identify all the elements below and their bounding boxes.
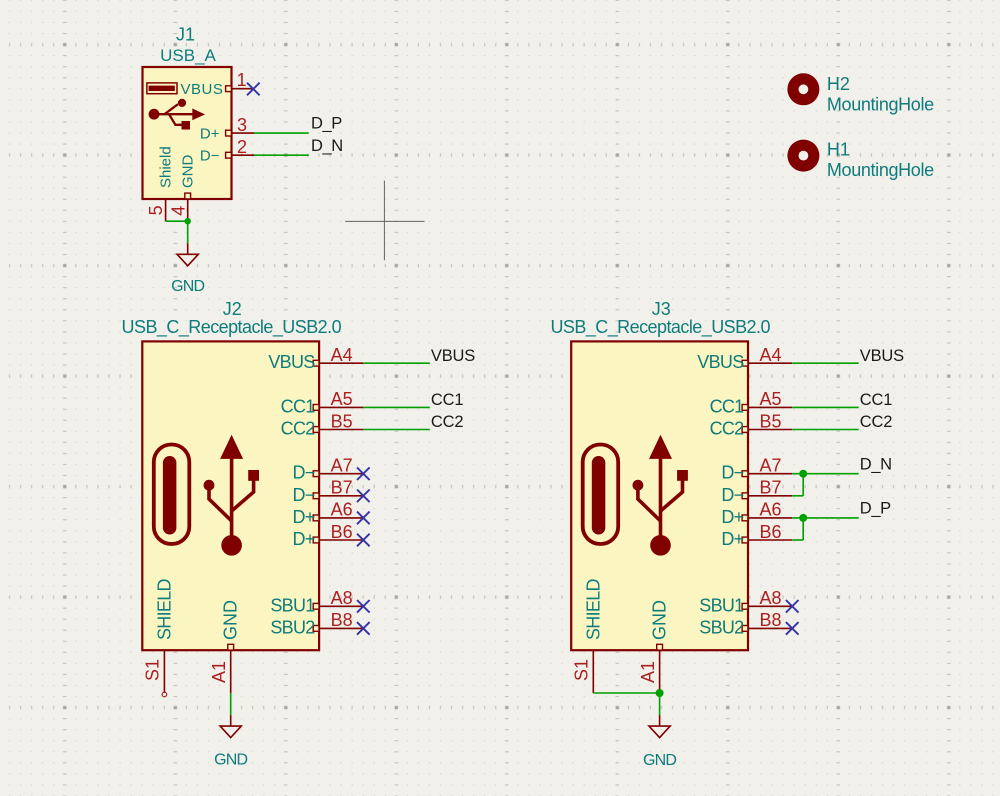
label D_N [311, 137, 343, 155]
pin A8 name [699, 595, 744, 615]
pin A5 number [331, 389, 353, 409]
pin A5 number [759, 389, 781, 409]
USB-A receptacle icon [147, 83, 177, 94]
pin B5 CC2 of J2 [313, 427, 363, 433]
pin A1 GND of J3 [657, 644, 663, 693]
pin A8 name [270, 595, 315, 615]
pin B5 number [331, 411, 353, 431]
svg-text:B8: B8 [759, 610, 781, 630]
pin name VBUS [180, 81, 223, 98]
pin 2 number [237, 137, 247, 157]
reference J1 [176, 25, 195, 45]
mounting hole H1 [787, 140, 819, 172]
svg-text:VBUS: VBUS [268, 352, 315, 372]
junction GND (J3) [656, 689, 664, 697]
wire B6 to junction [792, 518, 803, 540]
pin A7 number [331, 456, 353, 476]
svg-text:D+: D+ [292, 529, 314, 549]
svg-text:S1: S1 [142, 659, 162, 681]
pin A8 SBU1 of J2 [313, 603, 363, 609]
svg-text:D−: D− [292, 485, 314, 505]
wire pin5 to junction [166, 220, 188, 222]
wire VBUS [363, 362, 430, 364]
unconnected pin end S1 [162, 692, 167, 697]
wire D_P [792, 517, 859, 519]
value USB_C_Receptacle_USB2.0 (J2) [122, 317, 342, 338]
pin B6 number [331, 522, 353, 542]
svg-text:D_N: D_N [860, 455, 892, 473]
svg-text:1: 1 [237, 70, 247, 90]
wire CC1 [363, 406, 430, 408]
pin B6 name [292, 529, 314, 549]
pin 4 GND of J1 [185, 193, 191, 221]
svg-text:A8: A8 [331, 588, 353, 608]
USB-C oval icon (J3) [583, 445, 619, 545]
junction D_N [799, 470, 807, 478]
svg-text:CC2: CC2 [281, 419, 316, 439]
pin B8 name [699, 617, 744, 637]
svg-text:A1: A1 [209, 661, 229, 683]
pin A7 D- of J3 [742, 471, 792, 477]
pin B5 CC2 of J3 [742, 427, 792, 433]
USB trident icon (J2) [204, 435, 259, 556]
pin 2 D- of J1 [226, 152, 254, 158]
pin name GND (vertical) [650, 600, 670, 640]
reference H1 [827, 140, 850, 160]
pin 4 number [168, 206, 188, 216]
svg-text:B7: B7 [331, 478, 353, 498]
svg-text:D_P: D_P [311, 115, 342, 133]
svg-text:A5: A5 [759, 389, 781, 409]
svg-text:4: 4 [168, 206, 188, 216]
label D_P [860, 500, 891, 518]
pin S1 SHIELD of J2 [163, 650, 165, 693]
pin A5 name [281, 396, 316, 416]
svg-text:3: 3 [237, 115, 247, 135]
wire CC2 [792, 429, 859, 431]
no-connect x on pin A6 [357, 512, 370, 525]
svg-text:USB_C_Receptacle_USB2.0: USB_C_Receptacle_USB2.0 [122, 317, 342, 338]
value MountingHole (H2) [827, 95, 934, 115]
pin S1 number [142, 659, 162, 681]
pin A4 name [268, 352, 315, 372]
svg-text:SBU2: SBU2 [270, 617, 315, 637]
wire junction to GND [187, 221, 189, 243]
wire CC2 [363, 429, 430, 431]
svg-text:CC1: CC1 [431, 391, 463, 409]
pin A1 number [638, 661, 658, 683]
connector J1 body [143, 67, 232, 199]
no-connect x on pin B7 [357, 490, 370, 503]
pin A4 number [759, 345, 781, 365]
wire A1 to GND [230, 693, 232, 715]
pin B8 number [331, 610, 353, 630]
pin B6 number [759, 522, 781, 542]
svg-text:B5: B5 [759, 411, 781, 431]
pin 5 number [146, 205, 166, 215]
pin A8 number [759, 588, 781, 608]
svg-text:D+: D+ [200, 126, 220, 143]
svg-text:CC2: CC2 [860, 413, 892, 431]
svg-text:A6: A6 [331, 500, 353, 520]
pin 3 D+ of J1 [226, 130, 254, 136]
svg-text:D_P: D_P [860, 500, 891, 518]
connector J2 body [142, 341, 319, 650]
GND net text (J2) [214, 752, 247, 769]
label VBUS [431, 347, 475, 365]
pin B8 SBU2 of J3 [742, 626, 792, 632]
GND net text (J1) [171, 278, 204, 295]
pin A5 CC1 of J3 [742, 405, 792, 411]
junction D_P [799, 514, 807, 522]
pin name SHIELD (vertical) [583, 578, 603, 640]
svg-text:B5: B5 [331, 411, 353, 431]
svg-text:H2: H2 [827, 74, 850, 94]
pin name GND (vertical) [221, 600, 241, 640]
svg-text:GND: GND [643, 752, 676, 769]
pin 1 VBUS of J1 [226, 86, 253, 92]
pin A5 CC1 of J2 [313, 405, 363, 411]
wire CC1 [792, 406, 859, 408]
svg-text:B7: B7 [759, 478, 781, 498]
pin A1 number [209, 661, 229, 683]
svg-text:GND: GND [650, 600, 670, 640]
svg-text:VBUS: VBUS [860, 347, 904, 365]
label CC2 [431, 413, 463, 431]
svg-text:B6: B6 [759, 522, 781, 542]
svg-text:CC2: CC2 [710, 419, 745, 439]
svg-text:SBU1: SBU1 [699, 595, 744, 615]
svg-text:CC1: CC1 [281, 396, 316, 416]
value USB_C_Receptacle_USB2.0 (J3) [550, 317, 770, 338]
USB-C oval icon (J2) [154, 445, 190, 545]
pin S1 SHIELD of J3 [592, 650, 594, 693]
power symbol GND (J3) [649, 715, 670, 738]
label CC1 [431, 391, 463, 409]
svg-text:A4: A4 [759, 345, 781, 365]
label D_N [860, 455, 892, 473]
svg-text:D_N: D_N [311, 137, 343, 155]
pin A1 GND of J2 [228, 644, 234, 693]
pin name D- [200, 148, 220, 165]
svg-text:USB_A: USB_A [160, 46, 216, 65]
no-connect x on pin B8 [786, 622, 799, 635]
svg-text:VBUS: VBUS [431, 347, 475, 365]
pin B6 name [721, 529, 743, 549]
pin B5 number [759, 411, 781, 431]
no-connect x on pin A8 [357, 600, 370, 613]
pin A6 name [721, 507, 743, 527]
pin 3 number [237, 115, 247, 135]
svg-text:Shield: Shield [157, 146, 174, 188]
no-connect x on pin B6 [357, 534, 370, 547]
pin A4 VBUS of J3 [742, 360, 792, 366]
no-connect x on pin B8 [357, 622, 370, 635]
svg-text:GND: GND [214, 752, 247, 769]
pin A7 number [759, 456, 781, 476]
pin B7 number [759, 478, 781, 498]
wire D_N [254, 154, 309, 156]
pin B8 SBU2 of J2 [313, 626, 363, 632]
svg-text:5: 5 [146, 205, 166, 215]
svg-text:CC1: CC1 [860, 391, 892, 409]
pin A7 name [292, 463, 314, 483]
pin A4 name [697, 352, 744, 372]
pin 1 number [237, 70, 247, 90]
svg-text:GND: GND [221, 600, 241, 640]
svg-text:D−: D− [292, 463, 314, 483]
svg-text:VBUS: VBUS [697, 352, 744, 372]
pin B5 name [281, 419, 316, 439]
junction J1 gnd [185, 218, 191, 224]
svg-text:A7: A7 [759, 456, 781, 476]
svg-text:MountingHole: MountingHole [827, 160, 934, 180]
svg-text:A8: A8 [759, 588, 781, 608]
svg-text:A5: A5 [331, 389, 353, 409]
svg-text:D+: D+ [292, 507, 314, 527]
no-connect x on pin A7 [357, 467, 370, 480]
power symbol GND (J1) [177, 243, 198, 265]
svg-text:USB_C_Receptacle_USB2.0: USB_C_Receptacle_USB2.0 [550, 317, 770, 338]
label D_P [311, 115, 342, 133]
power symbol GND (J2) [220, 715, 241, 738]
pin B6 D+ of J3 [742, 537, 792, 543]
svg-text:CC1: CC1 [710, 396, 745, 416]
pin A8 number [331, 588, 353, 608]
pin name GND (vertical) [179, 155, 196, 189]
svg-text:GND: GND [179, 155, 196, 189]
svg-text:D+: D+ [721, 529, 743, 549]
wire S1 to junction [593, 692, 659, 694]
pin B7 name [292, 485, 314, 505]
cursor crosshair [345, 181, 424, 261]
wire A1 to GND [659, 693, 661, 715]
value USB_A [160, 46, 216, 65]
pin B7 name [721, 485, 743, 505]
pin B8 name [270, 617, 315, 637]
pin S1 number [571, 659, 591, 681]
pin A6 D+ of J3 [742, 515, 792, 521]
pin 5 Shield of J1 [165, 199, 167, 221]
connector J3 body [571, 341, 748, 650]
no-connect x on pin A8 [786, 600, 799, 613]
no-connect x on pin 1 [247, 83, 260, 96]
pin B8 number [759, 610, 781, 630]
svg-text:A7: A7 [331, 456, 353, 476]
pin A4 VBUS of J2 [313, 360, 363, 366]
pin A6 number [331, 500, 353, 520]
mounting hole H2 [787, 73, 819, 105]
pin A7 name [721, 463, 743, 483]
svg-text:S1: S1 [571, 659, 591, 681]
pin B5 name [710, 419, 745, 439]
svg-text:D−: D− [200, 148, 220, 165]
pin A8 SBU1 of J3 [742, 603, 792, 609]
reference J3 [652, 299, 671, 319]
svg-text:SBU2: SBU2 [699, 617, 744, 637]
label VBUS [860, 347, 904, 365]
svg-text:D−: D− [721, 485, 743, 505]
label CC2 [860, 413, 892, 431]
pin B7 number [331, 478, 353, 498]
GND net text (J3) [643, 752, 676, 769]
svg-text:J1: J1 [176, 25, 195, 45]
svg-text:CC2: CC2 [431, 413, 463, 431]
pin B7 D- of J2 [313, 493, 363, 499]
pin B6 D+ of J2 [313, 537, 363, 543]
pin name Shield (vertical) [157, 146, 174, 188]
wire D_N [792, 473, 859, 475]
USB trident icon [149, 99, 205, 130]
svg-text:H1: H1 [827, 140, 850, 160]
svg-text:D+: D+ [721, 507, 743, 527]
svg-text:SHIELD: SHIELD [583, 578, 603, 640]
svg-text:D−: D− [721, 463, 743, 483]
wire D_P [254, 132, 309, 134]
reference H2 [827, 74, 850, 94]
svg-text:MountingHole: MountingHole [827, 95, 934, 115]
pin A7 D- of J2 [313, 471, 363, 477]
svg-text:A4: A4 [331, 345, 353, 365]
svg-text:A1: A1 [638, 661, 658, 683]
pin A5 name [710, 396, 745, 416]
pin B7 D- of J3 [742, 493, 792, 499]
svg-text:B8: B8 [331, 610, 353, 630]
svg-text:SBU1: SBU1 [270, 595, 315, 615]
pin A4 number [331, 345, 353, 365]
svg-text:VBUS: VBUS [180, 81, 223, 98]
label CC1 [860, 391, 892, 409]
pin A6 D+ of J2 [313, 515, 363, 521]
USB trident icon (J3) [633, 435, 688, 556]
value MountingHole (H1) [827, 160, 934, 180]
pin name SHIELD (vertical) [154, 578, 174, 640]
svg-text:2: 2 [237, 137, 247, 157]
svg-text:GND: GND [171, 278, 204, 295]
pin A6 name [292, 507, 314, 527]
wire VBUS [792, 362, 859, 364]
svg-text:SHIELD: SHIELD [154, 578, 174, 640]
wire B7 to junction [792, 474, 803, 496]
pin A6 number [759, 500, 781, 520]
reference J2 [223, 299, 242, 319]
svg-text:B6: B6 [331, 522, 353, 542]
svg-text:A6: A6 [759, 500, 781, 520]
pin name D+ [200, 126, 220, 143]
